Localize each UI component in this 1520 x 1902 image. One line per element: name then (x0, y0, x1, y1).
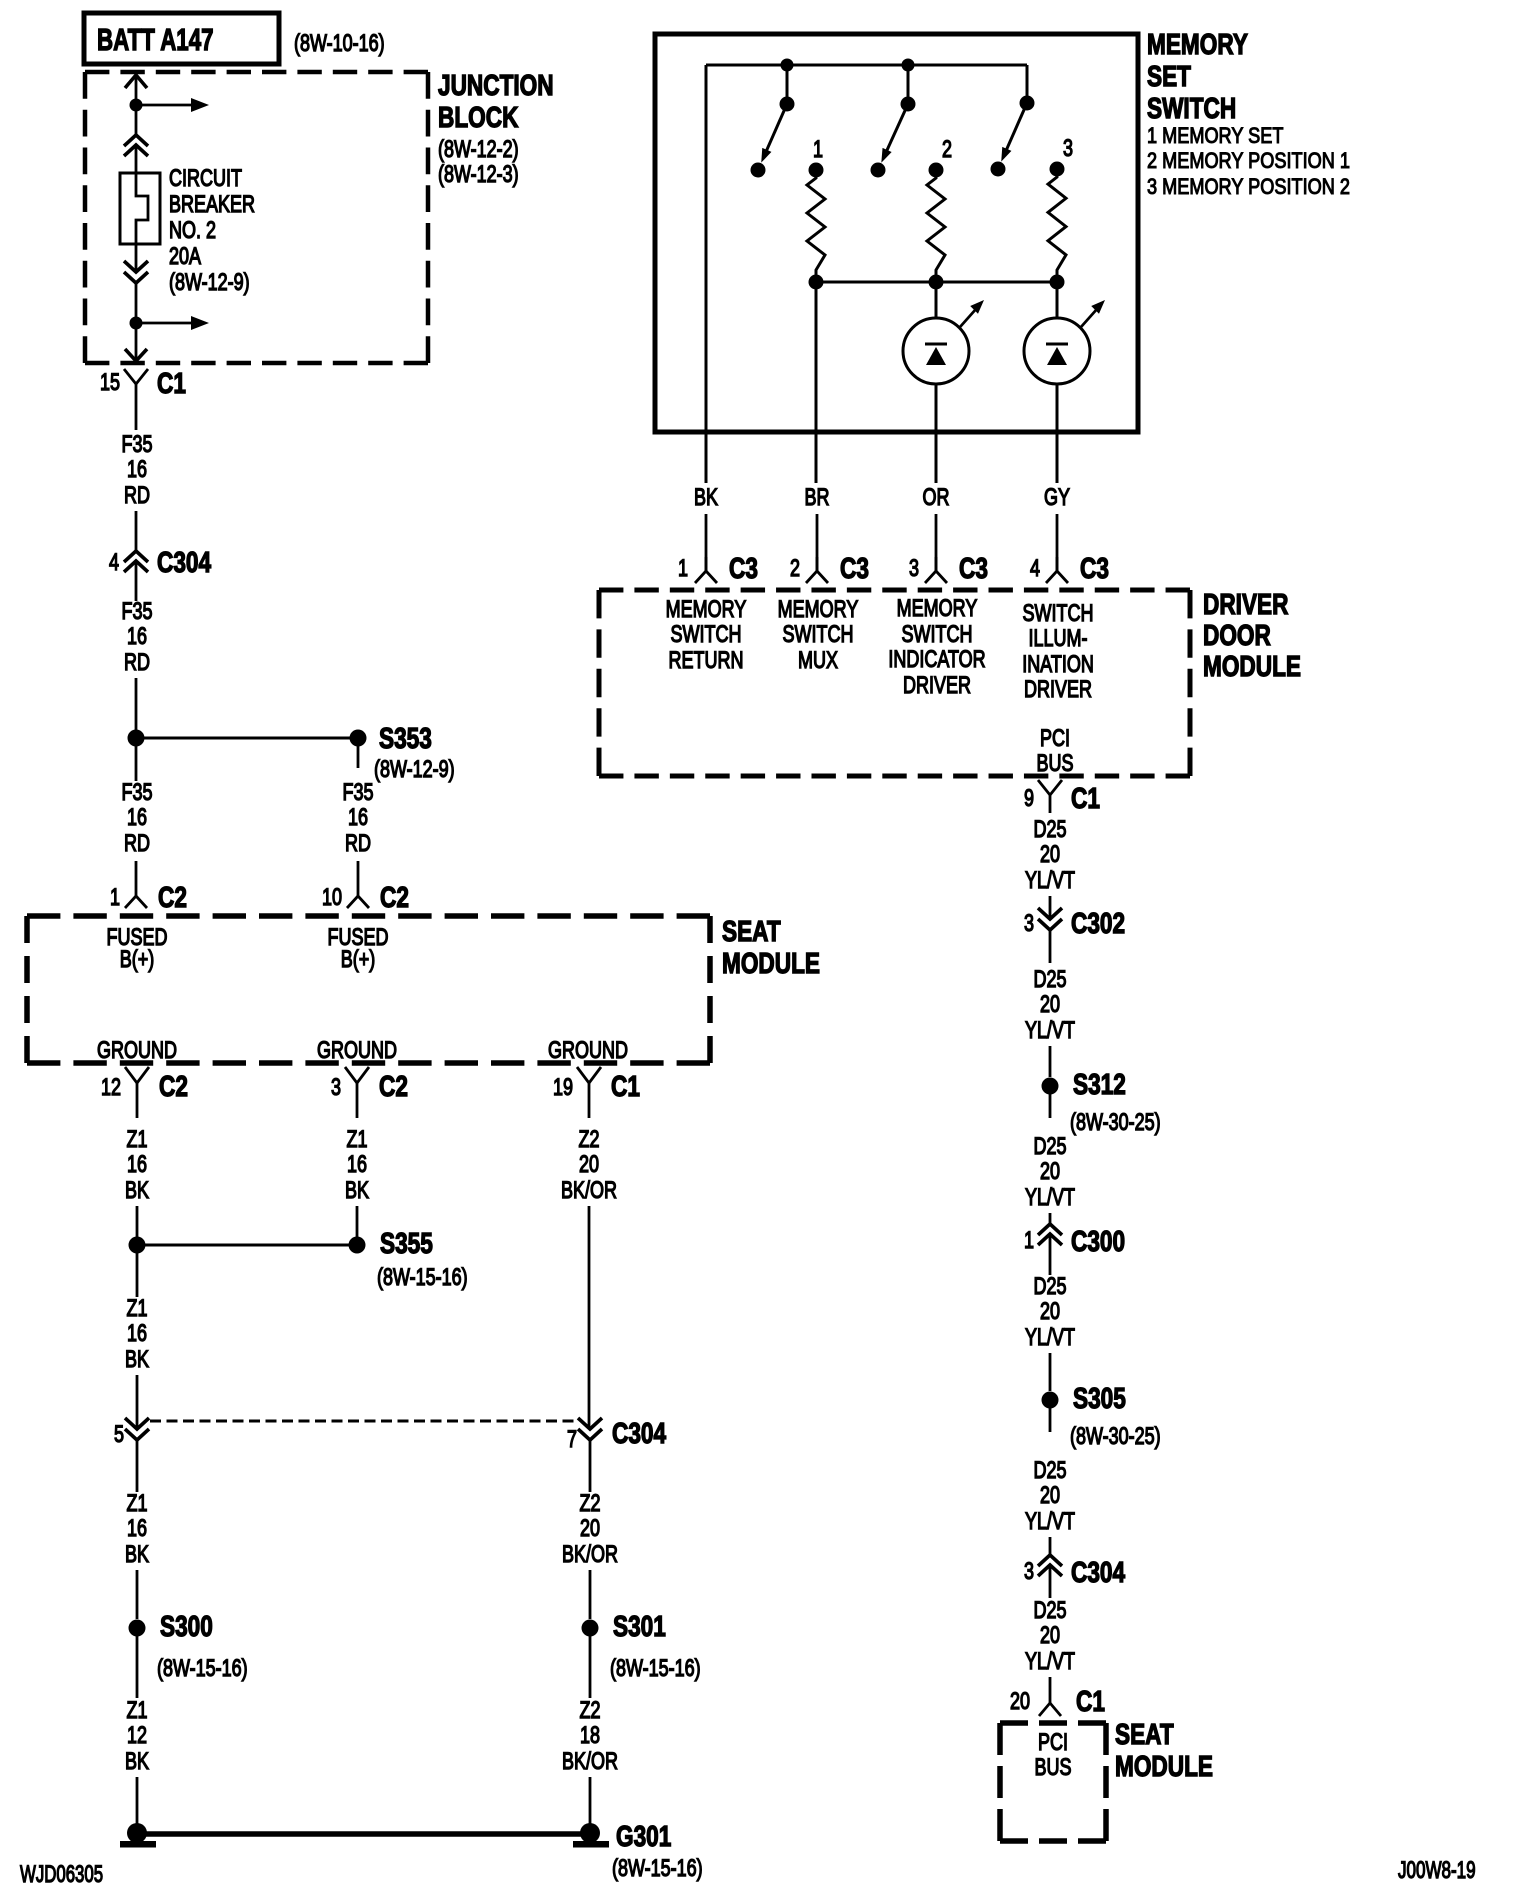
svg-text:S353: S353 (379, 721, 432, 754)
svg-text:Z2: Z2 (579, 1698, 600, 1724)
svg-text:C3: C3 (959, 551, 988, 584)
svg-text:YL/VT: YL/VT (1025, 1649, 1075, 1675)
svg-text:1 MEMORY SET: 1 MEMORY SET (1147, 124, 1283, 148)
svg-text:(8W-15-16): (8W-15-16) (610, 1656, 701, 1682)
node: breaker output junction (130, 317, 143, 330)
connector 20 C1 (1010, 1684, 1105, 1717)
svg-text:BK: BK (125, 1542, 149, 1568)
svg-text:MODULE: MODULE (1203, 649, 1301, 682)
svg-text:20: 20 (1040, 842, 1060, 868)
svg-text:3: 3 (331, 1075, 341, 1101)
wire: exit arrow at junction block boundary (125, 349, 147, 361)
svg-text:3: 3 (1024, 911, 1034, 937)
svg-text:SET: SET (1147, 59, 1191, 92)
svg-text:PCI: PCI (1040, 726, 1070, 752)
svg-text:(8W-12-2): (8W-12-2) (438, 137, 519, 163)
svg-text:BUS: BUS (1034, 1755, 1071, 1781)
svg-text:D25: D25 (1033, 1134, 1066, 1160)
seat module label (722, 914, 820, 979)
wire label F35 16 RD (3, left) (121, 746, 152, 857)
pin label memory switch return (666, 597, 747, 674)
power feed box BATT A147 (84, 13, 279, 64)
connector 3 C3 (909, 551, 988, 584)
svg-text:16: 16 (348, 805, 368, 831)
svg-text:C1: C1 (611, 1069, 640, 1102)
svg-text:Z2: Z2 (578, 1127, 599, 1153)
svg-text:RD: RD (124, 831, 150, 857)
svg-text:MEMORY: MEMORY (666, 597, 747, 623)
svg-text:CIRCUIT: CIRCUIT (169, 166, 242, 192)
svg-text:C2: C2 (158, 880, 187, 913)
splice S305 (1042, 1381, 1161, 1449)
svg-text:1: 1 (813, 137, 823, 163)
svg-text:Z1: Z1 (126, 1127, 147, 1153)
svg-text:B(+): B(+) (341, 947, 375, 973)
memory set switch label block (1147, 27, 1350, 199)
svg-text:4: 4 (109, 550, 119, 576)
wire label D25 20 YL/VT (3) (1025, 1134, 1075, 1224)
wire label Z1 16 BK (2) (125, 1253, 149, 1429)
svg-text:C1: C1 (1076, 1684, 1105, 1717)
connector 15 C1 (100, 366, 186, 430)
svg-text:SWITCH: SWITCH (902, 622, 973, 648)
memory set switch enclosure (655, 34, 1138, 432)
connector chevrons inside junction block (lower pair) (124, 261, 148, 283)
svg-text:D25: D25 (1033, 1274, 1066, 1300)
svg-text:(8W-12-3): (8W-12-3) (438, 162, 519, 188)
svg-text:BATT A147: BATT A147 (97, 22, 214, 56)
svg-text:16: 16 (127, 1152, 147, 1178)
svg-text:YL/VT: YL/VT (1025, 1325, 1075, 1351)
svg-text:RD: RD (345, 831, 371, 857)
wire label Z2 18 BK/OR (562, 1636, 618, 1825)
node: bus tap 1 (781, 59, 794, 105)
connector 7 C304 (567, 1416, 667, 1452)
LED indicator 2 (memory position 2) (1024, 300, 1105, 483)
wire label Z1 16 BK (left) (125, 1127, 149, 1237)
svg-text:(8W-12-9): (8W-12-9) (169, 270, 250, 296)
wire BR with label (804, 432, 829, 571)
svg-text:15: 15 (100, 370, 120, 396)
wire: branch arrow to other circuits (bottom) (136, 316, 209, 330)
svg-text:D25: D25 (1033, 1598, 1066, 1624)
svg-text:SWITCH: SWITCH (671, 622, 742, 648)
svg-text:Z1: Z1 (126, 1698, 147, 1724)
connector 4 C304 (109, 545, 212, 578)
svg-text:S305: S305 (1073, 1381, 1126, 1414)
svg-text:2 MEMORY POSITION 1: 2 MEMORY POSITION 1 (1147, 149, 1350, 173)
svg-text:20: 20 (1040, 1623, 1060, 1649)
svg-text:BREAKER: BREAKER (169, 192, 255, 218)
svg-text:1: 1 (110, 885, 120, 911)
switch position label 2 (942, 137, 952, 163)
svg-text:20: 20 (1040, 1159, 1060, 1185)
wire label Z1 12 BK (125, 1636, 149, 1825)
svg-text:MODULE: MODULE (722, 946, 820, 979)
svg-text:16: 16 (127, 1321, 147, 1347)
pin label memory switch indicator driver (888, 596, 985, 699)
svg-text:OR: OR (923, 485, 950, 511)
svg-text:RD: RD (124, 483, 150, 509)
wire label Z2 20 BK/OR (1) (561, 1127, 617, 1429)
wire: C304 connector tie line (150, 1420, 577, 1423)
svg-text:C304: C304 (612, 1416, 667, 1449)
switch S3 (memory position 2) (991, 96, 1035, 177)
svg-text:RD: RD (124, 650, 150, 676)
pin label memory switch mux (778, 597, 859, 674)
svg-text:DRIVER: DRIVER (903, 673, 971, 699)
switch position label 3 (1063, 136, 1073, 162)
svg-text:F35: F35 (121, 599, 152, 625)
wire label D25 20 YL/VT (2) (1025, 930, 1075, 1077)
svg-text:MUX: MUX (798, 648, 838, 674)
splice S312 (1042, 1067, 1161, 1135)
svg-text:SWITCH: SWITCH (1147, 91, 1236, 124)
svg-text:16: 16 (347, 1152, 367, 1178)
svg-text:D25: D25 (1033, 967, 1066, 993)
node: resistor bus junction 1 (809, 275, 824, 484)
svg-text:16: 16 (127, 805, 147, 831)
wire: crossover to S355 (137, 1244, 357, 1247)
svg-text:16: 16 (127, 457, 147, 483)
svg-text:RETURN: RETURN (669, 648, 744, 674)
pin label GROUND x3 (97, 1038, 628, 1064)
resistor R2 (position 1) (927, 163, 945, 283)
wire: ground bus (137, 1831, 590, 1837)
pin label PCI BUS (driver door module) (1036, 726, 1073, 777)
splice S355 (349, 1226, 468, 1290)
svg-text:GROUND: GROUND (548, 1038, 628, 1064)
svg-text:GY: GY (1044, 485, 1070, 511)
svg-text:NO. 2: NO. 2 (169, 218, 216, 244)
svg-text:12: 12 (101, 1075, 121, 1101)
svg-text:DRIVER: DRIVER (1024, 677, 1092, 703)
wire: branch arrow to other circuits (top) (136, 98, 209, 112)
wire into circuit breaker (136, 145, 148, 272)
svg-text:G301: G301 (616, 1819, 671, 1852)
svg-text:J00W8-19: J00W8-19 (1398, 1857, 1476, 1884)
switch position label 1 (813, 137, 823, 163)
svg-text:Z1: Z1 (126, 1296, 147, 1322)
connector 19 C1 (553, 1067, 640, 1118)
wire label Z1 16 BK (3) (125, 1440, 149, 1619)
pin label FUSED B(+) right (328, 925, 389, 973)
svg-text:INATION: INATION (1022, 652, 1094, 678)
svg-text:3: 3 (909, 556, 919, 582)
circuit breaker label (169, 166, 255, 296)
svg-text:PCI: PCI (1038, 1730, 1068, 1756)
node: ground splice junction (129, 1237, 146, 1254)
svg-text:1: 1 (1024, 1228, 1034, 1254)
svg-text:BK: BK (125, 1178, 149, 1204)
svg-text:(8W-15-16): (8W-15-16) (612, 1856, 703, 1882)
svg-text:MODULE: MODULE (1115, 1749, 1213, 1782)
seat module enclosure (27, 916, 710, 1063)
ground G301 right terminal (573, 1819, 703, 1881)
wire label D25 20 YL/VT (4) (1025, 1234, 1075, 1391)
connector 10 C2 (322, 861, 409, 914)
resistor R1 (memory set) (807, 163, 825, 283)
connector 1 C2 (110, 861, 187, 914)
svg-text:SWITCH: SWITCH (783, 622, 854, 648)
circuit breaker No. 2 20A (120, 173, 160, 244)
svg-text:S312: S312 (1073, 1067, 1126, 1100)
svg-text:2: 2 (942, 137, 952, 163)
svg-text:DRIVER: DRIVER (1203, 587, 1289, 620)
svg-text:YL/VT: YL/VT (1025, 1509, 1075, 1535)
pin label switch illumination driver (1022, 601, 1094, 703)
svg-text:3: 3 (1024, 1559, 1034, 1585)
pin label FUSED B(+) left (107, 925, 168, 973)
seat module (PCI) label (1115, 1717, 1213, 1782)
wire label Z1 16 BK (mid) (345, 1127, 369, 1237)
wire OR with label (923, 485, 950, 571)
svg-text:18: 18 (580, 1723, 600, 1749)
wire: battery feed into junction block (arrow up) (125, 75, 147, 135)
svg-text:SWITCH: SWITCH (1023, 601, 1094, 627)
svg-text:F35: F35 (121, 780, 152, 806)
svg-text:YL/VT: YL/VT (1025, 868, 1075, 894)
wire: splice crossover to S353 (136, 737, 358, 740)
connector 5 C304 (114, 1418, 149, 1448)
connector 4 C3 (1030, 551, 1109, 584)
wire: resistor output bus (816, 281, 1057, 284)
svg-text:MEMORY: MEMORY (1147, 27, 1248, 60)
svg-text:BK: BK (125, 1749, 149, 1775)
wire label F35 16 RD (4, right) (342, 780, 373, 857)
svg-text:(8W-12-9): (8W-12-9) (374, 757, 455, 783)
connector 3 C302 (1024, 906, 1125, 939)
svg-text:3: 3 (1063, 136, 1073, 162)
svg-text:F35: F35 (121, 432, 152, 458)
svg-text:BK/OR: BK/OR (562, 1542, 618, 1568)
svg-text:WJD06305: WJD06305 (20, 1861, 103, 1888)
svg-text:BK: BK (125, 1347, 149, 1373)
wire label D25 20 YL/VT (6) (1025, 1565, 1075, 1690)
svg-text:2: 2 (790, 556, 800, 582)
svg-text:YL/VT: YL/VT (1025, 1185, 1075, 1211)
splice S301 (582, 1609, 701, 1681)
svg-text:20: 20 (1040, 992, 1060, 1018)
svg-text:10: 10 (322, 885, 342, 911)
splice S353 (350, 721, 455, 782)
svg-text:GROUND: GROUND (97, 1038, 177, 1064)
svg-text:D25: D25 (1033, 1458, 1066, 1484)
seat module (PCI) enclosure (1000, 1723, 1106, 1841)
svg-text:19: 19 (553, 1075, 573, 1101)
svg-text:C2: C2 (379, 1069, 408, 1102)
junction block label (438, 68, 554, 187)
svg-text:(8W-15-16): (8W-15-16) (157, 1656, 248, 1682)
svg-text:7: 7 (567, 1427, 577, 1453)
connector 9 C1 (1024, 780, 1100, 815)
splice S300 (129, 1609, 248, 1681)
LED indicator 1 (memory position 1) (903, 300, 984, 483)
wire label F35 16 RD (1) (121, 432, 152, 551)
wire label D25 20 YL/VT (1) (1025, 817, 1075, 919)
svg-text:MEMORY: MEMORY (778, 597, 859, 623)
svg-text:3 MEMORY POSITION 2: 3 MEMORY POSITION 2 (1147, 175, 1350, 199)
svg-text:BK: BK (694, 485, 718, 511)
svg-text:S301: S301 (613, 1609, 666, 1642)
svg-text:BK/OR: BK/OR (562, 1749, 618, 1775)
connector 1 C300 (1024, 1224, 1125, 1258)
svg-text:1: 1 (678, 556, 688, 582)
svg-text:20: 20 (580, 1516, 600, 1542)
svg-text:MEMORY: MEMORY (897, 596, 978, 622)
svg-text:C304: C304 (157, 545, 212, 578)
wire label Z2 20 BK/OR (2) (562, 1440, 618, 1619)
pin label PCI BUS (seat module) (1034, 1730, 1071, 1781)
wire: switch common bus (706, 65, 1027, 483)
wire BK with label (694, 485, 718, 571)
svg-text:C302: C302 (1071, 906, 1125, 939)
svg-text:JUNCTION: JUNCTION (438, 68, 554, 101)
svg-text:BK: BK (345, 1178, 369, 1204)
connector 12 C2 (101, 1067, 188, 1118)
svg-text:SEAT: SEAT (1115, 1717, 1174, 1750)
svg-text:16: 16 (127, 1516, 147, 1542)
svg-text:SEAT: SEAT (722, 914, 781, 947)
svg-text:(8W-15-16): (8W-15-16) (377, 1265, 468, 1291)
node: bus tap 2 (902, 59, 915, 105)
svg-text:20A: 20A (169, 244, 202, 270)
svg-text:9: 9 (1024, 786, 1034, 812)
switch S1 (memory set) (751, 97, 795, 178)
footer plate code J00W8-19 (1398, 1857, 1476, 1884)
svg-text:INDICATOR: INDICATOR (888, 647, 985, 673)
svg-text:S300: S300 (160, 1609, 213, 1642)
driver door module enclosure (599, 590, 1190, 776)
svg-text:B(+): B(+) (120, 947, 154, 973)
resistor R3 (position 2) (1048, 162, 1066, 283)
svg-text:GROUND: GROUND (317, 1038, 397, 1064)
svg-text:C2: C2 (380, 880, 409, 913)
connector 2 C3 (790, 551, 869, 584)
wire label F35 16 RD (2) (121, 561, 152, 738)
svg-text:4: 4 (1030, 556, 1040, 582)
svg-text:S355: S355 (380, 1226, 433, 1259)
svg-text:D25: D25 (1033, 817, 1066, 843)
svg-text:5: 5 (114, 1422, 124, 1448)
svg-text:F35: F35 (342, 780, 373, 806)
connector chevrons inside junction block (upper pair) (124, 135, 148, 156)
svg-text:C304: C304 (1071, 1555, 1126, 1588)
node: feed branch junction (130, 99, 143, 112)
svg-text:C3: C3 (840, 551, 869, 584)
switch S2 (memory position 1) (871, 97, 916, 178)
svg-text:20: 20 (579, 1152, 599, 1178)
wire label D25 20 YL/VT (5) (1025, 1458, 1075, 1555)
node: F35 splice junction (128, 730, 145, 747)
connector 3 C2 (331, 1067, 408, 1118)
svg-text:DOOR: DOOR (1203, 618, 1271, 651)
svg-text:C300: C300 (1071, 1224, 1125, 1257)
wire: breaker output (135, 283, 138, 361)
svg-text:(8W-30-25): (8W-30-25) (1070, 1424, 1161, 1450)
svg-text:C1: C1 (157, 366, 186, 399)
svg-text:Z1: Z1 (126, 1491, 147, 1517)
reference label (8W-10-16) (294, 31, 385, 57)
driver door module label (1203, 587, 1301, 682)
svg-text:16: 16 (127, 624, 147, 650)
wire GY with label (1044, 485, 1070, 571)
svg-text:BLOCK: BLOCK (438, 100, 519, 133)
svg-text:20: 20 (1040, 1483, 1060, 1509)
svg-text:20: 20 (1040, 1299, 1060, 1325)
svg-text:BUS: BUS (1036, 751, 1073, 777)
svg-text:ILLUM-: ILLUM- (1029, 626, 1088, 652)
svg-text:BK/OR: BK/OR (561, 1178, 617, 1204)
connector 3 C304 (PCI) (1024, 1555, 1126, 1589)
node: resistor bus junction 3 (1050, 275, 1065, 319)
junction block enclosure (85, 72, 428, 363)
wire: bus corner to switch 3 (1026, 65, 1029, 103)
connector 1 C3 (678, 551, 758, 584)
svg-text:(8W-10-16): (8W-10-16) (294, 31, 385, 57)
footer diagram number WJD06305 (20, 1861, 103, 1888)
svg-text:12: 12 (127, 1723, 147, 1749)
svg-text:20: 20 (1010, 1689, 1030, 1715)
svg-text:(8W-30-25): (8W-30-25) (1070, 1110, 1161, 1136)
svg-text:C3: C3 (1080, 551, 1109, 584)
ground G301 left terminal (120, 1823, 156, 1848)
svg-text:C3: C3 (729, 551, 758, 584)
svg-text:Z2: Z2 (579, 1491, 600, 1517)
svg-text:C1: C1 (1071, 781, 1100, 814)
node: resistor bus junction 2 (929, 275, 944, 319)
svg-text:YL/VT: YL/VT (1025, 1018, 1075, 1044)
svg-text:C2: C2 (159, 1069, 188, 1102)
svg-text:Z1: Z1 (346, 1127, 367, 1153)
svg-text:BR: BR (804, 485, 829, 511)
